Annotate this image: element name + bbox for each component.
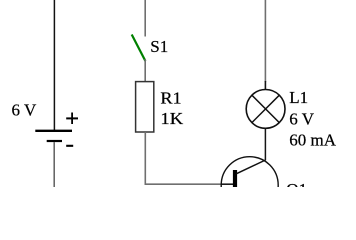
resistor R1 body (136, 82, 154, 132)
svg-text:60 mA: 60 mA (289, 130, 336, 149)
battery B1 long plate (+) (35, 130, 72, 132)
battery B1 short plate (-) (47, 140, 62, 142)
wire: switch bottom contact to resistor (144, 59, 146, 81)
wire: base lead (black, inside transistor circle) (222, 183, 234, 185)
svg-text:L1: L1 (289, 88, 308, 107)
svg-text:S1: S1 (150, 37, 168, 56)
lamp L1 X cross (252, 95, 279, 122)
battery plus sign (66, 113, 78, 125)
wire: battery top lead (black vertical, net to top edge) (53, 0, 55, 130)
svg-text:1K: 1K (160, 109, 184, 128)
wire: battery bottom lead (gray vertical to bottom edge) (53, 142, 55, 187)
wire: collector lead up to lamp (264, 128, 266, 160)
svg-text:6 V: 6 V (289, 109, 314, 128)
lamp L1 circle (246, 90, 285, 129)
wire: switch top contact (gray vertical from top edge) (144, 0, 146, 37)
transistor Q1 base bar (233, 170, 237, 187)
svg-text:R1: R1 (160, 88, 181, 107)
transistor Q1 circle (221, 157, 278, 214)
battery minus sign (66, 145, 73, 147)
transistor Q1 collector diagonal (237, 160, 266, 174)
switch S1 lever (green, open) (132, 35, 146, 62)
svg-text:6 V: 6 V (12, 100, 37, 119)
wire: resistor bottom to base corner (145, 132, 222, 184)
wire: lamp top lead (gray from top edge, black near lamp) (264, 0, 266, 82)
svg-text:Q1: Q1 (286, 180, 307, 187)
